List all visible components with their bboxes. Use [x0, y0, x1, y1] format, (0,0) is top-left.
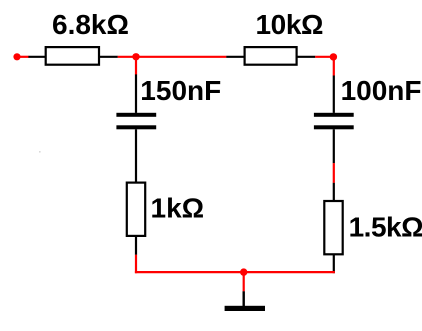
resistor R2 10k left lead	[226, 56, 244, 58]
svg-text:1.5kΩ: 1.5kΩ	[349, 211, 422, 242]
bottom rail wire (red)	[135, 271, 335, 273]
resistor R2 10k body	[245, 47, 297, 65]
wire C1 bottom pin to R3 top pin (black leads joined)	[135, 129, 137, 182]
wire node B down to C2 top pin (red)	[333, 57, 335, 76]
svg-text:1kΩ: 1kΩ	[151, 193, 205, 224]
capacitor C2 100n bottom plate	[314, 125, 354, 129]
node A junction dot	[132, 53, 139, 60]
resistor R3 1k body	[127, 183, 145, 236]
terminal dot (input, left)	[13, 53, 20, 60]
resistor R1 6.8k left lead	[28, 56, 45, 58]
capacitor C1 150n bottom plate	[116, 125, 156, 129]
wire node A down to C1 top pin (red)	[135, 57, 137, 75]
capacitor C2 100n top plate	[314, 113, 354, 117]
node C junction dot (bottom)	[240, 268, 247, 275]
node B junction dot	[330, 53, 337, 60]
ground bar	[225, 306, 265, 311]
resistor R4 1.5k bottom lead	[333, 254, 335, 273]
stray speck	[39, 151, 41, 153]
svg-text:100nF: 100nF	[341, 75, 422, 106]
capacitor C2 100n bottom lead	[333, 129, 335, 163]
resistor R4 1.5k body	[324, 201, 342, 254]
wire R2 right pin to node B (red)	[315, 56, 334, 58]
svg-text:150nF: 150nF	[140, 75, 221, 106]
wire node C down to ground pin (red)	[243, 272, 245, 291]
resistor R2 10k right lead	[297, 56, 316, 58]
wire input terminal to R1 left pin (red)	[16, 56, 29, 58]
svg-text:6.8kΩ: 6.8kΩ	[52, 9, 129, 40]
wire R3 bottom pin down to bottom rail (red)	[135, 255, 137, 274]
resistor R4 1.5k top lead	[333, 183, 335, 201]
capacitor C2 100n top lead	[333, 76, 335, 113]
capacitor C1 150n top lead	[135, 74, 137, 113]
resistor R1 6.8k right lead	[99, 56, 118, 58]
wire R1 right pin to R2 left pin through node A (red)	[118, 56, 227, 58]
resistor R3 1k bottom lead	[135, 236, 137, 255]
ground stem	[242, 291, 244, 306]
wire C2 bottom pin to R4 top pin (red)	[333, 163, 335, 183]
capacitor C1 150n top plate	[116, 113, 156, 117]
svg-text:10kΩ: 10kΩ	[256, 9, 324, 40]
resistor R1 6.8k body	[46, 47, 99, 65]
